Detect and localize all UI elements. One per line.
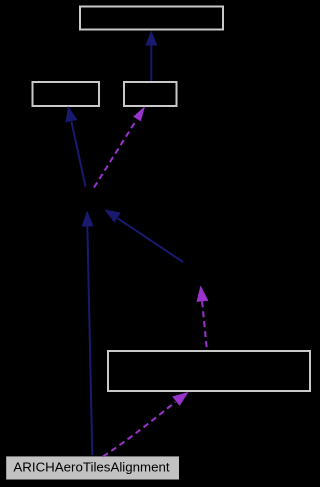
svg-text:ARICHAeroTilesAlignment: ARICHAeroTilesAlignment	[13, 460, 169, 475]
